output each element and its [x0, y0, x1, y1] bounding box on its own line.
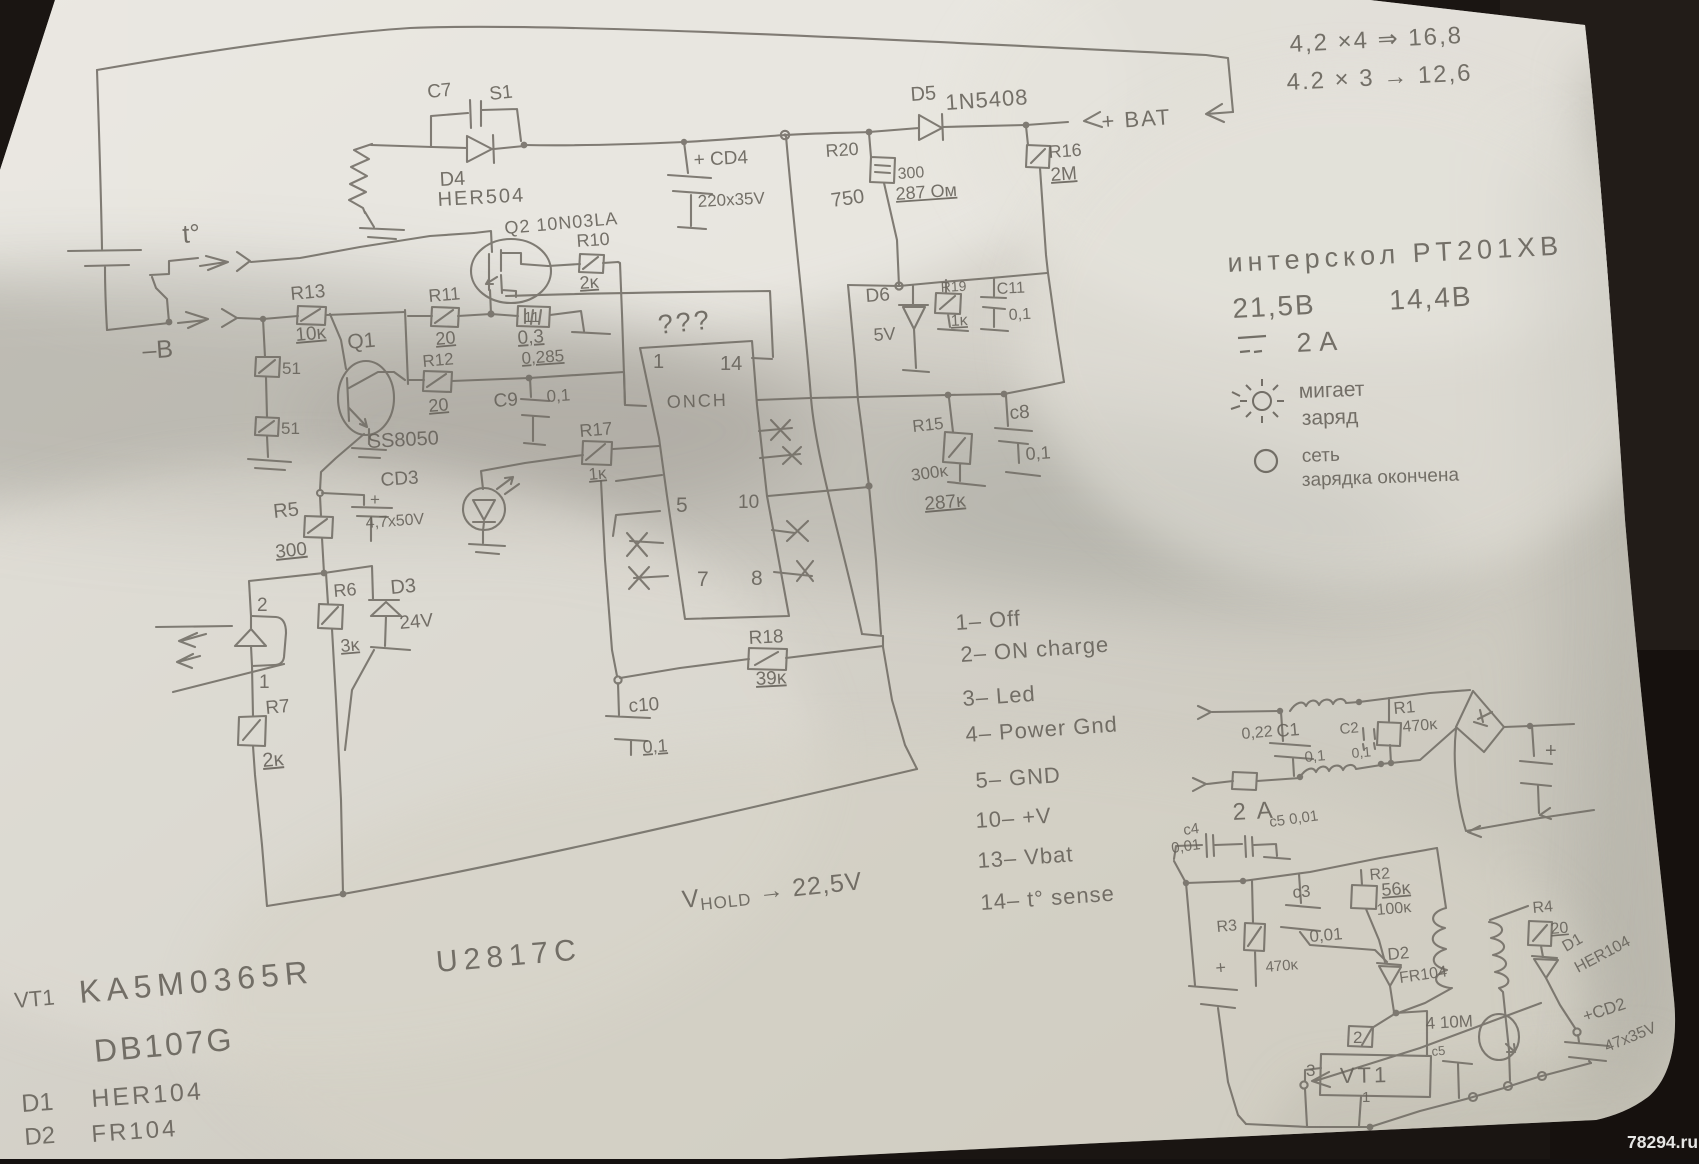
resistor R2 — [1351, 870, 1385, 962]
svg-text:–Β: –Β — [141, 335, 173, 365]
node CD2 top — [1573, 1028, 1580, 1035]
pin X left a — [627, 533, 663, 556]
node D2 bottom — [1393, 1010, 1400, 1017]
svg-text:1– Off: 1– Off — [955, 605, 1022, 635]
capacitor C8 — [995, 396, 1040, 476]
node pin10 — [865, 482, 872, 489]
svg-text:c8: c8 — [1009, 402, 1030, 424]
filter choke top — [1290, 699, 1359, 711]
wire +V vertical — [786, 136, 862, 634]
svg-text:1κ: 1κ — [588, 463, 608, 484]
node CD4 — [681, 139, 687, 145]
wire C10 to R18 — [620, 659, 749, 678]
pin X right b — [760, 447, 801, 464]
svg-text:D3: D3 — [390, 575, 417, 599]
node R1 top rail — [1356, 699, 1362, 705]
wire between 51s — [266, 377, 267, 417]
sun symbol — [1231, 379, 1284, 423]
svg-text:R3: R3 — [1216, 917, 1238, 936]
svg-text:10κ: 10κ — [295, 322, 328, 346]
node C1 top — [1277, 708, 1283, 714]
D6 box left edge — [848, 285, 881, 634]
svg-text:VT1: VT1 — [13, 985, 55, 1013]
wire to +BAT arrow — [1026, 112, 1102, 127]
svg-text:470κ: 470κ — [1265, 956, 1299, 976]
svg-text:39κ: 39κ — [755, 667, 787, 690]
svg-text:D1: D1 — [20, 1088, 54, 1118]
wire coil to D4 — [371, 145, 432, 147]
svg-text:0,1: 0,1 — [546, 385, 571, 406]
wire left boundary — [97, 70, 102, 249]
pin3 wire — [1305, 1068, 1321, 1081]
bridge return loop — [1455, 729, 1594, 837]
feedback winding — [1489, 922, 1510, 1081]
svg-text:2κ: 2κ — [262, 748, 286, 772]
svg-text:0,22: 0,22 — [1241, 723, 1274, 743]
svg-text:0,1: 0,1 — [642, 735, 668, 757]
resistor R11 — [431, 307, 459, 327]
svg-text:R5: R5 — [272, 498, 300, 523]
capacitor C4 C5 series — [1174, 834, 1290, 859]
svg-text:51: 51 — [281, 419, 300, 438]
node D4 out — [521, 142, 528, 149]
optocoupler outline — [252, 616, 286, 666]
wire pin3 down to C10 — [601, 481, 617, 676]
zener D2 — [1377, 963, 1401, 1012]
svg-text:10– +V: 10– +V — [975, 803, 1053, 833]
shunt 0.3 — [491, 306, 610, 334]
node rail bottom — [1367, 1124, 1374, 1131]
wire pin1 entry — [529, 372, 625, 405]
wire node to pin4 — [1396, 1011, 1427, 1056]
diode D5 — [869, 114, 1026, 140]
svg-text:78294.ru: 78294.ru — [1627, 1132, 1698, 1152]
optocoupler transistor — [1479, 1014, 1519, 1060]
svg-text:R18: R18 — [748, 626, 784, 649]
svg-text:300: 300 — [274, 539, 308, 563]
transistor VT1 box — [1320, 1054, 1431, 1097]
svg-text:R13: R13 — [290, 281, 327, 305]
node R1 bottom — [1388, 760, 1394, 766]
capacitor C2 dashes — [1363, 728, 1375, 750]
dash marks 2A — [1238, 336, 1266, 352]
resistor R6 — [318, 573, 343, 629]
svg-text:R20: R20 — [825, 139, 859, 161]
svg-text:0,1: 0,1 — [1025, 442, 1051, 464]
node bottom rail — [1378, 761, 1384, 767]
svg-text:???: ??? — [656, 304, 713, 339]
wire node to D3 — [324, 566, 373, 599]
thermal switch t — [150, 258, 198, 322]
lighting: bright top-left / top-right, shadow band through middle, dim right edge — [0, 0, 1130, 350]
svg-text:287κ: 287κ — [924, 490, 967, 515]
svg-text:R15: R15 — [911, 414, 944, 436]
wire ground return long — [343, 769, 917, 894]
battery GB1 — [68, 250, 141, 330]
ground under 51 — [248, 436, 291, 470]
node open c — [1538, 1072, 1546, 1080]
opto LED D — [235, 616, 266, 716]
svg-text:D2: D2 — [24, 1122, 56, 1151]
svg-text:Q1: Q1 — [346, 329, 376, 354]
resistor R1 — [1377, 698, 1401, 763]
svg-text:0,1: 0,1 — [1304, 747, 1326, 766]
D6 box bottom link — [862, 634, 883, 647]
svg-text:CD3: CD3 — [380, 467, 419, 491]
svg-text:0,3: 0,3 — [517, 326, 545, 349]
wire rail to bridge top — [1359, 690, 1470, 702]
svg-text:c10: c10 — [628, 694, 660, 717]
svg-text:4 10М: 4 10М — [1425, 1012, 1473, 1033]
svg-text:220x35V: 220x35V — [697, 188, 766, 211]
svg-text:t°: t° — [181, 218, 201, 249]
filter choke bottom — [1300, 765, 1381, 777]
node open a — [1469, 1093, 1477, 1101]
stub R11-R12 — [405, 310, 408, 384]
svg-text:D2: D2 — [1387, 943, 1410, 964]
svg-text:D6: D6 — [865, 284, 891, 307]
svg-text:2κ: 2κ — [579, 272, 600, 293]
resistor 51 (lower) — [255, 417, 279, 436]
node bridge out — [1527, 723, 1533, 729]
svg-text:3– Led: 3– Led — [962, 681, 1037, 711]
svg-text:+: + — [1545, 740, 1557, 762]
svg-text:D5: D5 — [910, 82, 937, 106]
LED HL — [463, 488, 505, 530]
capacitor C3 — [1281, 874, 1387, 962]
svg-text:R4: R4 — [1532, 898, 1554, 917]
svg-text:R16: R16 — [1048, 140, 1082, 162]
resistor R18 — [748, 646, 883, 670]
wire right vertical lower — [883, 647, 917, 769]
svg-text:R19: R19 — [940, 278, 967, 295]
svg-text:750: 750 — [830, 186, 866, 212]
node rail b — [1240, 878, 1246, 884]
svg-text:300: 300 — [897, 164, 925, 183]
svg-text:2: 2 — [1353, 1028, 1362, 1047]
svg-text:2: 2 — [257, 595, 268, 616]
resistor R19 — [935, 280, 968, 331]
node +V top — [781, 131, 789, 139]
svg-text:R11: R11 — [428, 283, 461, 306]
svg-text:100κ: 100κ — [1376, 899, 1413, 919]
wire R11 to Q2 source node — [458, 314, 491, 316]
rail SMPS top — [1174, 848, 1437, 883]
resistor 51 (upper) — [255, 357, 280, 377]
IC body — [640, 341, 789, 619]
svg-text:VT1: VT1 — [1340, 1062, 1390, 1088]
coil L secondary — [349, 144, 372, 213]
svg-text:0,01: 0,01 — [1309, 924, 1344, 946]
pin X right c — [772, 521, 808, 541]
pin3 line — [616, 475, 662, 481]
transformer primary — [1398, 848, 1452, 1013]
svg-text:R12: R12 — [422, 349, 455, 371]
svg-text:5: 5 — [676, 494, 688, 517]
node fuse out — [1297, 774, 1303, 780]
wire R16 down — [1040, 168, 1048, 273]
wire R13 to R11 stub — [326, 312, 405, 315]
svg-text:сеть: сеть — [1301, 445, 1340, 467]
fuse 2A — [1232, 772, 1300, 790]
node R5/R6 junction — [321, 570, 328, 577]
lower-right SMPS primary circuit — [1174, 834, 1609, 1130]
node R20 top — [866, 129, 873, 136]
resistor R16 — [1026, 126, 1050, 168]
svg-text:HER504: HER504 — [437, 184, 526, 211]
svg-text:R6: R6 — [333, 579, 358, 601]
light arrows into LED — [156, 626, 284, 692]
diode D4 — [432, 135, 524, 163]
node R15 — [945, 392, 952, 399]
svg-text:R1: R1 — [1393, 697, 1416, 718]
svg-text:3κ: 3κ — [340, 634, 362, 656]
circle symbol — [1255, 450, 1277, 472]
ground Q1 emitter — [352, 448, 386, 458]
svg-text:51: 51 — [282, 359, 301, 378]
D6 box top edge — [848, 273, 1047, 286]
svg-text:C9: C9 — [493, 389, 519, 412]
svg-text:+ CD4: + CD4 — [693, 147, 749, 171]
ground under coil — [360, 212, 404, 239]
svg-text:+: + — [1215, 957, 1227, 978]
svg-text:470κ: 470κ — [1402, 716, 1439, 736]
wire +BAT outer boundary — [97, 27, 1233, 112]
bridge rectifier — [1456, 691, 1504, 752]
svg-text:S1: S1 — [488, 82, 513, 105]
battery out cap — [1520, 726, 1552, 819]
svg-text:3: 3 — [1306, 1061, 1315, 1080]
svg-text:C11: C11 — [996, 280, 1025, 298]
pin X right d — [774, 561, 813, 581]
svg-text:10: 10 — [738, 492, 759, 513]
svg-text:1: 1 — [259, 672, 270, 693]
node C10 — [614, 676, 621, 683]
zener D3 — [345, 600, 410, 750]
pin1 wire — [1359, 1097, 1361, 1126]
resistor R5 — [304, 516, 333, 538]
pin2 line R17 — [613, 446, 659, 449]
pin X left b — [629, 567, 668, 589]
svg-text:20: 20 — [435, 327, 457, 349]
pin2 label box — [1348, 1026, 1373, 1047]
svg-text:R7: R7 — [265, 696, 291, 719]
svg-text:0,285: 0,285 — [521, 346, 565, 368]
wire node to opto LED — [249, 573, 324, 616]
connector mains N — [1193, 778, 1233, 791]
wire R12 to C9 node — [452, 378, 529, 381]
svg-text:мигает: мигает — [1298, 378, 1365, 403]
pin10 line — [768, 487, 869, 496]
svg-text:ONCH: ONCH — [666, 390, 728, 412]
svg-text:2М: 2М — [1050, 163, 1078, 186]
capacitor C11 — [981, 278, 1008, 331]
wire stub to R12 — [408, 379, 424, 381]
svg-text:C2: C2 — [1339, 719, 1360, 738]
resistor R13 — [297, 306, 326, 325]
svg-text:8: 8 — [751, 567, 763, 590]
node Q2 source — [487, 310, 494, 317]
wire pin2 to node — [1362, 1013, 1396, 1045]
D6 box right edge — [1048, 273, 1064, 382]
left vertical with electrolytic — [1186, 883, 1246, 1124]
wire rail to bridge left — [1381, 728, 1456, 764]
svg-text:+: + — [370, 490, 380, 509]
svg-text:1κ: 1κ — [950, 312, 969, 330]
svg-text:20: 20 — [1550, 919, 1569, 937]
node C8 — [1001, 391, 1008, 398]
node D6 top — [895, 282, 902, 289]
capacitor C9 — [521, 378, 549, 445]
node rail a — [1183, 880, 1189, 886]
pin13 rail — [757, 382, 1064, 400]
connector mains L — [1198, 706, 1280, 719]
svg-text:1: 1 — [1362, 1089, 1370, 1106]
svg-text:20: 20 — [428, 394, 450, 416]
lower-right mains circuit — [1193, 690, 1594, 837]
capacitor C5 out — [1443, 1061, 1472, 1098]
capacitor C7 / switch S1 branch — [431, 100, 521, 147]
svg-text:R10: R10 — [576, 229, 610, 251]
node R13 branch — [260, 316, 266, 322]
resistor R10 — [548, 254, 618, 273]
wire R20 to D6 box — [884, 183, 899, 286]
node open b — [1504, 1082, 1512, 1090]
resistor R17 — [481, 441, 612, 489]
node pin3 — [1300, 1081, 1307, 1088]
svg-text:R17: R17 — [579, 418, 614, 441]
capacitor CD4 — [668, 142, 712, 229]
svg-text:287 Ом: 287 Ом — [895, 180, 958, 204]
capacitor CD2 — [1565, 1035, 1609, 1063]
capacitor CD3 — [322, 493, 392, 541]
resistor R20 — [869, 133, 895, 183]
wire pin14 sweep — [506, 291, 773, 359]
svg-text:7: 7 — [697, 568, 709, 591]
node R5 top — [317, 490, 323, 496]
capacitor C1 — [1270, 712, 1313, 776]
rail SMPS bottom — [1246, 1063, 1591, 1127]
capacitor C10 — [606, 683, 650, 755]
svg-text:+ ΒΑΤ: + ΒΑΤ — [1101, 104, 1173, 134]
svg-text:1: 1 — [653, 351, 664, 373]
wire bridge out — [1504, 724, 1574, 727]
resistor R7 — [238, 716, 266, 746]
svg-text:C1: C1 — [1276, 719, 1301, 741]
pin X right a — [759, 420, 792, 440]
svg-text:заряд: заряд — [1301, 405, 1358, 430]
wire 51 divider drop — [263, 319, 265, 357]
resistor R3 — [1244, 881, 1265, 986]
svg-text:5V: 5V — [873, 324, 896, 345]
svg-text:11: 11 — [524, 309, 540, 326]
node C9 — [526, 375, 533, 382]
transistor Q1 — [338, 361, 394, 435]
svg-text:c5: c5 — [1431, 1043, 1446, 1059]
svg-text:c3: c3 — [1292, 881, 1312, 901]
connector arrow t sense — [200, 233, 474, 271]
svg-text:0,1: 0,1 — [1351, 743, 1372, 761]
svg-text:SS8050: SS8050 — [367, 427, 439, 453]
wire stub to R11 — [408, 315, 432, 317]
wire -B node to R13 — [263, 316, 298, 319]
connector arrow -B row — [178, 309, 263, 328]
zener D6 — [899, 286, 929, 372]
resistor R4 — [1490, 906, 1552, 957]
svg-text:56κ: 56κ — [1381, 877, 1413, 900]
wire battery to -B node — [107, 323, 169, 330]
wire Q1 emitter to R5 column — [320, 434, 364, 490]
svg-text:14: 14 — [720, 353, 742, 375]
svg-text:2 А: 2 А — [1296, 326, 1338, 358]
wire R10 down to pin — [618, 262, 646, 406]
svg-text:24V: 24V — [399, 610, 435, 634]
node -B junction — [166, 319, 173, 326]
wire bottom return left — [267, 894, 343, 906]
node R16 top — [1023, 122, 1030, 129]
mosfet Q2 — [471, 239, 551, 303]
pin5 bracket — [613, 511, 660, 536]
resistor R15 — [943, 398, 985, 486]
resistor R12 — [423, 371, 452, 392]
node arrow to +BAT — [1206, 104, 1233, 122]
svg-text:C7: C7 — [426, 80, 452, 103]
diode D1 — [1532, 956, 1575, 1028]
svg-text:0,1: 0,1 — [1008, 306, 1031, 324]
wire top rail — [524, 132, 869, 145]
wire R13 to Q1 base — [330, 314, 346, 369]
node bottom return — [340, 891, 347, 898]
